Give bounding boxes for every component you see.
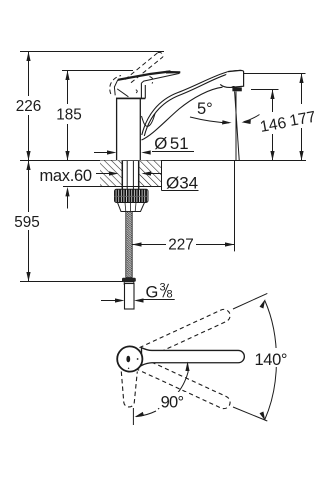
dimension 227 (132, 161, 235, 253)
extension line lever top (185 ref) (62, 70, 133, 72)
collar below nut (118, 203, 145, 212)
svg-text:146: 146 (259, 115, 288, 136)
extension line top (226 ref, tip of raised lever) (20, 51, 164, 53)
dimension 226 (16, 52, 42, 161)
svg-text:595: 595 (14, 214, 40, 231)
svg-text:226: 226 (16, 98, 42, 115)
svg-text:5°: 5° (197, 100, 213, 118)
svg-text:Ø34: Ø34 (166, 174, 198, 193)
5 deg stream lines (235, 92, 240, 161)
dimension 185 (56, 71, 82, 161)
spout (side view) (142, 70, 241, 140)
mounting shank through countertop (122, 161, 138, 190)
dashed spout swivel position lower (133, 356, 232, 411)
5 deg arc + arrows (190, 100, 260, 125)
connection tube G3/8 (125, 284, 135, 310)
dimension 146 (259, 90, 288, 161)
dimension 177 (288, 74, 317, 161)
extension line 177 (spout head top) (241, 73, 306, 75)
svg-text:max.60: max.60 (40, 167, 93, 185)
svg-text:90°: 90° (161, 394, 185, 412)
diameter 51 annotation (94, 134, 194, 155)
140 deg radius lines (233, 293, 267, 309)
hose end fitting (122, 278, 136, 285)
lever capsule (top view) (142, 348, 245, 366)
extension line 146 (aerator level) (251, 89, 279, 91)
svg-text:G: G (146, 284, 159, 302)
max.60 annotation (40, 167, 119, 209)
dimension 595 (14, 161, 40, 282)
svg-text:177: 177 (288, 109, 317, 130)
diameter 34 annotation (142, 171, 199, 192)
faucet body circle (top view) (117, 346, 142, 371)
max.60 up arrow below countertop (67, 195, 69, 209)
svg-text:Ø51: Ø51 (154, 134, 188, 153)
svg-text:185: 185 (56, 107, 82, 124)
140 deg label (252, 348, 292, 369)
faucet base column (side view) (116, 98, 141, 160)
G 3/8 annotation (101, 282, 175, 303)
140 deg arc + arrows (260, 299, 277, 421)
svg-text:140°: 140° (255, 351, 288, 369)
flexible braided hose (126, 212, 132, 278)
90 deg arc + arrows (135, 362, 190, 418)
hose bottom line (595 ref) (20, 281, 124, 283)
countertop top line (20, 160, 306, 162)
dashed spout swivel position upper (133, 307, 232, 362)
svg-text:8: 8 (167, 289, 173, 301)
handle-down radius line (132, 408, 134, 425)
svg-text:227: 227 (168, 236, 194, 253)
countertop hatched section left of hole (63, 161, 162, 191)
dashed raised lever (side view) (110, 52, 163, 94)
spout head + aerator (220, 70, 243, 91)
lever handle (side view, rest position) (114, 71, 180, 99)
mounting nut (knurled) (115, 189, 149, 202)
dashed handle down position (top view) (121, 372, 137, 407)
